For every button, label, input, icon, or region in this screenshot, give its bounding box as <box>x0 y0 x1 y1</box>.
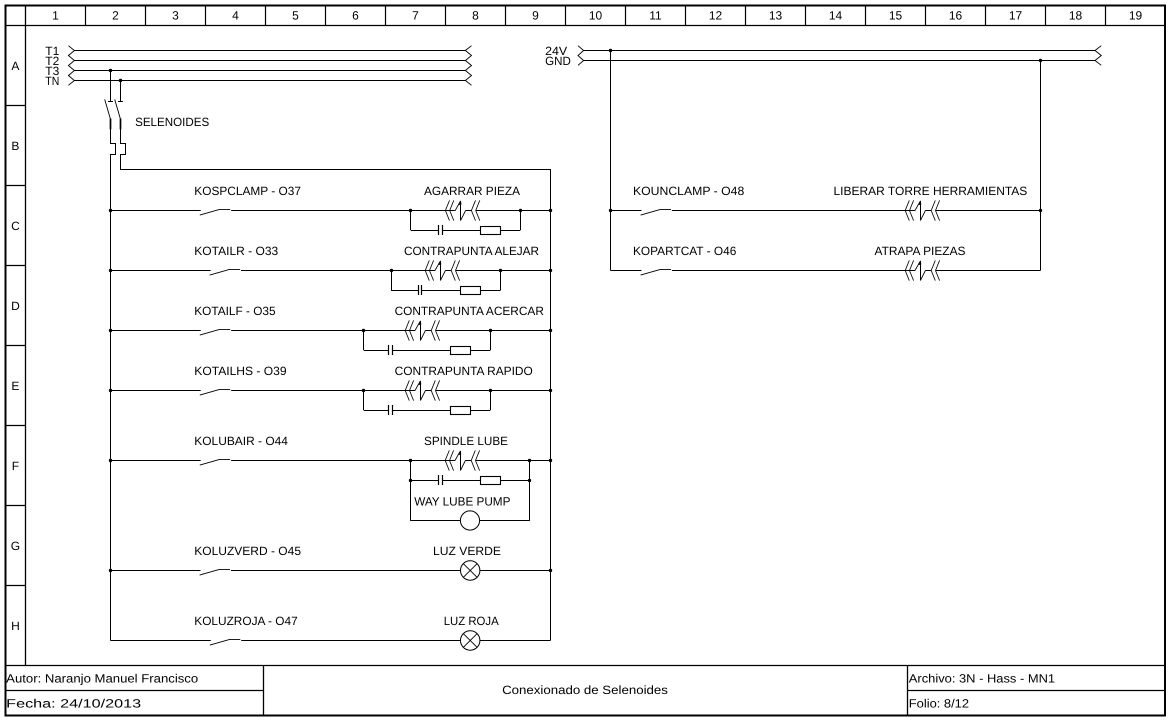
svg-text:9: 9 <box>532 9 539 23</box>
svg-text:18: 18 <box>1069 9 1083 23</box>
svg-text:SPINDLE LUBE: SPINDLE LUBE <box>424 434 508 448</box>
svg-text:Fecha: 24/10/2013: Fecha: 24/10/2013 <box>6 697 141 711</box>
svg-text:CONTRAPUNTA ALEJAR: CONTRAPUNTA ALEJAR <box>404 244 539 258</box>
svg-text:WAY LUBE PUMP: WAY LUBE PUMP <box>414 494 510 508</box>
svg-text:A: A <box>11 59 19 73</box>
svg-text:2: 2 <box>112 9 119 23</box>
svg-text:B: B <box>11 139 19 153</box>
svg-text:KOSPCLAMP - O37: KOSPCLAMP - O37 <box>194 184 301 198</box>
svg-text:KOLUZROJA - O47: KOLUZROJA - O47 <box>194 614 298 628</box>
svg-text:10: 10 <box>589 9 603 23</box>
svg-text:KOTAILF - O35: KOTAILF - O35 <box>194 304 276 318</box>
svg-text:KOPARTCAT - O46: KOPARTCAT - O46 <box>633 244 737 258</box>
svg-text:3: 3 <box>172 9 179 23</box>
svg-text:Autor: Naranjo Manuel Francisc: Autor: Naranjo Manuel Francisco <box>6 671 198 685</box>
svg-text:LUZ ROJA: LUZ ROJA <box>444 614 499 628</box>
svg-text:Conexionado de Selenoides: Conexionado de Selenoides <box>502 683 668 697</box>
svg-text:LIBERAR TORRE HERRAMIENTAS: LIBERAR TORRE HERRAMIENTAS <box>834 184 1028 198</box>
svg-text:15: 15 <box>889 9 903 23</box>
svg-text:CONTRAPUNTA RAPIDO: CONTRAPUNTA RAPIDO <box>395 364 533 378</box>
svg-text:KOUNCLAMP - O48: KOUNCLAMP - O48 <box>633 184 745 198</box>
svg-text:E: E <box>11 379 19 393</box>
svg-text:Archivo: 3N - Hass - MN1: Archivo: 3N - Hass - MN1 <box>909 671 1056 685</box>
svg-text:CONTRAPUNTA ACERCAR: CONTRAPUNTA ACERCAR <box>395 304 545 318</box>
svg-text:17: 17 <box>1009 9 1023 23</box>
svg-text:KOTAILR - O33: KOTAILR - O33 <box>194 244 278 258</box>
svg-text:SELENOIDES: SELENOIDES <box>135 115 209 129</box>
svg-text:TN: TN <box>45 74 59 88</box>
svg-text:14: 14 <box>829 9 843 23</box>
svg-text:KOLUBAIR - O44: KOLUBAIR - O44 <box>194 434 288 448</box>
svg-text:16: 16 <box>949 9 963 23</box>
svg-text:KOLUZVERD - O45: KOLUZVERD - O45 <box>194 544 301 558</box>
svg-text:AGARRAR PIEZA: AGARRAR PIEZA <box>424 184 520 198</box>
svg-text:13: 13 <box>769 9 783 23</box>
svg-text:ATRAPA PIEZAS: ATRAPA PIEZAS <box>875 244 966 258</box>
svg-text:KOTAILHS - O39: KOTAILHS - O39 <box>194 364 287 378</box>
svg-text:GND: GND <box>545 54 571 68</box>
svg-text:D: D <box>11 299 20 313</box>
svg-text:4: 4 <box>232 9 239 23</box>
svg-text:5: 5 <box>292 9 299 23</box>
svg-text:H: H <box>11 619 20 633</box>
svg-text:C: C <box>11 219 20 233</box>
svg-text:19: 19 <box>1129 9 1143 23</box>
svg-text:1: 1 <box>52 9 59 23</box>
svg-text:LUZ VERDE: LUZ VERDE <box>433 544 501 558</box>
svg-text:12: 12 <box>709 9 723 23</box>
svg-text:8: 8 <box>472 9 479 23</box>
svg-text:11: 11 <box>649 9 662 23</box>
svg-text:G: G <box>11 539 20 553</box>
svg-text:F: F <box>12 459 19 473</box>
svg-text:7: 7 <box>412 9 419 23</box>
svg-text:6: 6 <box>352 9 359 23</box>
svg-text:Folio: 8/12: Folio: 8/12 <box>909 697 970 711</box>
